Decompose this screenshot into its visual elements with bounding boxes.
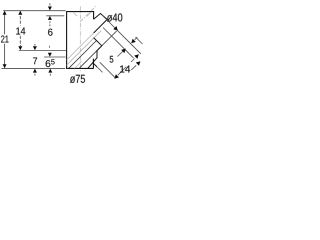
branch dim 5 shaft [118,51,124,57]
pipe body left wall [66,11,68,68]
branch dim 14 arrow beta tip on L1 ext [136,61,141,65]
branch dim 5 arrow NE tip on L1 [121,49,126,54]
wire mid reference line y=50.5 [19,50,66,52]
branch extension line L2 [102,15,141,54]
socket chamfer right [87,12,92,17]
lower branch break polyline [88,46,102,69]
pipe body right wall upper segment [93,11,95,19]
branch extension line L3 stub [136,37,143,44]
node dim 6 arrows [49,3,51,5]
pipe body right wall lower segment [92,59,94,69]
lower branch stub lower wall [92,62,97,67]
node dim 14 line [19,11,21,46]
node dim 7 arrows [34,44,36,46]
branch break chevron [94,14,108,20]
wire main centerline vertical dash-dot [79,6,81,72]
branch dim 14 arrow SW bottom [114,74,119,79]
branch extension line L1 [103,28,134,59]
interior hatch 1 [67,33,94,60]
corner extension line SE1 [97,67,103,73]
node label 14 [16,28,25,35]
branch dim 5 arrow SW tip on L2 [131,39,136,44]
wire reference line y=57 [44,56,66,58]
wire socket-depth line y=15.8 [46,15,64,17]
node dim 21 line [4,11,6,67]
interior hatch line [75,61,82,68]
interior hatch 2 [67,31,101,65]
interior bore diagonal A [69,41,97,69]
corner extension line SE2 [100,62,115,77]
wire top dimension baseline [3,10,65,12]
node label 5 branch [110,56,114,63]
pipe body outline top edge [67,11,94,13]
interior bore diagonal B long [79,31,117,68]
branch dim 14 arrow alpha tip on L2 [134,54,139,59]
wire branch centerline 45deg dash-dot [80,6,95,21]
socket chamfer left [73,12,77,16]
branch lower wall [94,19,108,33]
pipe body bottom edge [66,67,94,69]
node label 6 [48,29,52,36]
wire bottom dimension baseline [2,67,66,69]
node label 6 of 6.5 [46,60,51,67]
lower branch stub upper wall [94,38,102,46]
node label 21 [1,35,8,42]
node label dia 40 [107,13,122,21]
node label 14 branch [120,66,130,73]
branch dim arrow C on L2 [113,26,118,31]
node label superscript 5 [51,59,54,64]
node label dia 75 [70,75,85,83]
node dim 6.5 arrows [49,46,51,48]
node label 7 [33,58,37,65]
